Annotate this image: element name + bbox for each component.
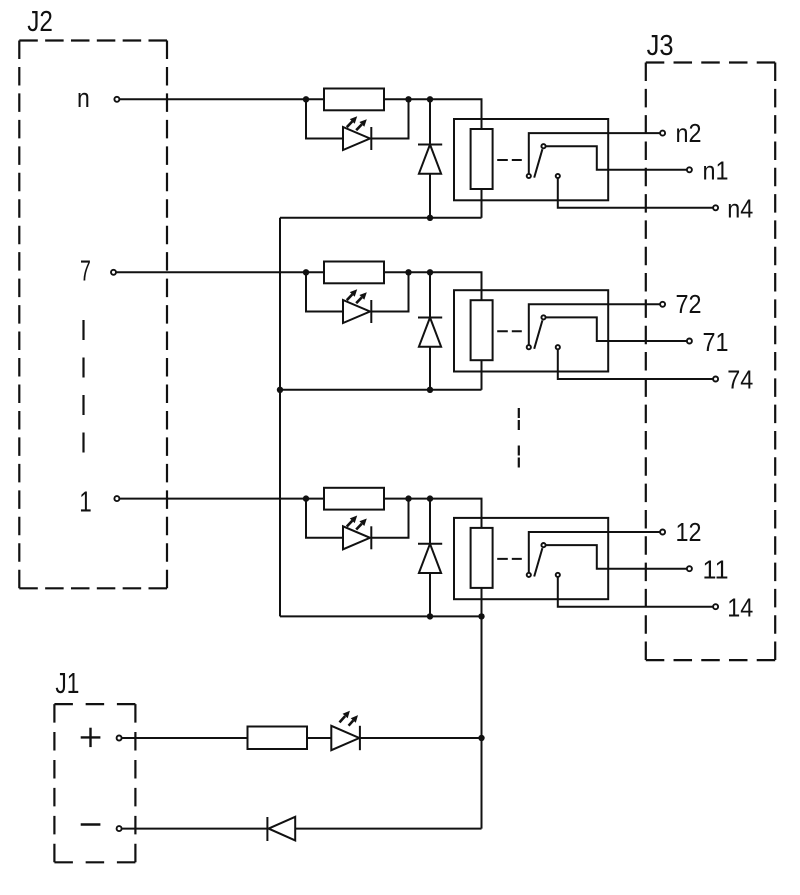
wire: channel bus ch1 [280,217,482,219]
wire: pole to n2 [529,133,663,176]
svg-text:J3: J3 [647,30,674,62]
J1 minus sign [81,823,101,825]
connector J2 [19,41,167,589]
svg-text:7: 7 [80,255,91,287]
LED arrows ch2 [347,294,353,300]
reverse protection diode D4 [266,817,268,841]
resistor R0 [248,727,308,750]
connector J3 [646,63,775,661]
wire: LED branch ch1 [306,99,343,138]
J2 pin 7 terminal [111,270,116,275]
wire: coil bottom to bus ch3 [481,588,483,617]
freewheeling diode D3b [429,499,431,544]
LED arrows D0 [340,716,346,722]
switch contacts ch3 [527,573,531,577]
terminal 71 [687,339,692,344]
svg-text:12: 12 [676,517,702,547]
wire: minus to diode [122,828,267,830]
J1 minus terminal [117,826,122,831]
LED arrows ch1 [347,121,353,127]
wire: pole to 12 [529,532,663,575]
wire: contact to 74 [558,347,716,379]
svg-text:J1: J1 [55,668,79,700]
switch arm ch1 [534,149,542,177]
svg-text:72: 72 [676,289,702,319]
terminal 74 [713,377,718,382]
wire: return line down to J1 [481,616,483,828]
node: diode tap ch3 [427,495,433,501]
J1 plus terminal [117,736,122,741]
terminal 12 [660,530,665,535]
wire: channel bus ch3 [280,615,482,617]
relay K1 box [454,119,608,200]
node: LED rejoin ch1 [405,96,411,102]
svg-text:n1: n1 [703,156,729,186]
freewheeling diode D1b [429,99,431,144]
J2 pin n terminal [114,97,119,102]
wire: LED branch ch3 [306,499,343,538]
svg-text:11: 11 [703,555,729,585]
J2 pins ellipsis dashed line [82,320,84,458]
LED arrows ch3 [347,521,353,527]
coil-contact link dashes ch1 [497,159,522,161]
relay K3 coil [471,528,493,588]
J1 plus sign [81,736,101,738]
switch arm ch2 [534,320,542,348]
freewheeling diode D2b [429,272,431,317]
node: diode to bus ch3 [427,613,433,619]
node: diode tap ch1 [427,96,433,102]
svg-text:n4: n4 [727,194,753,224]
node: return junction at channel-1 bus [478,613,484,619]
wire: contact to n4 [558,176,716,208]
connector J1 [54,704,135,862]
wire: LED branch ch2 [306,272,343,311]
wire: resistor to coil corner ch1 [384,99,482,129]
relay K2 coil [471,300,493,360]
terminal n4 [713,205,718,210]
terminal 14 [713,604,718,609]
svg-text:14: 14 [727,592,753,622]
node: plus joins return line [478,735,484,741]
coil-contact link dashes ch2 [497,330,522,332]
terminal 11 [687,566,692,571]
terminal n2 [660,131,665,136]
node: diode to bus ch1 [427,215,433,221]
wire: coil bottom to bus ch2 [481,360,483,390]
wire: coil bottom to bus ch1 [481,189,483,218]
svg-text:74: 74 [727,365,753,395]
node: LED rejoin ch3 [405,495,411,501]
wire: LED to return node [360,737,482,739]
wire: plus to resistor [122,737,247,739]
switch contacts ch2 [527,345,531,349]
wire: resistor to LED [307,737,331,739]
resistor R1 [324,89,384,111]
wire: contact to 11 [544,545,690,569]
wire: contact to n1 [544,146,690,170]
power LED D0 [331,726,359,750]
svg-text:1: 1 [79,487,92,519]
wire: resistor to coil corner ch2 [384,272,482,300]
terminal 72 [660,302,665,307]
node: LED branch split ch3 [303,495,309,501]
vertical ellipsis separator between channel 7 and 1 blocks [518,408,520,468]
node: rail to channel-7 bus [277,387,283,393]
relay K2 box [454,290,608,371]
terminal n1 [687,167,692,172]
wire: pole to 72 [529,304,663,347]
LED D1a [343,127,370,150]
node: LED rejoin ch2 [405,269,411,275]
svg-text:J2: J2 [27,6,53,38]
wire: pin 1 to resistor [119,498,324,500]
switch contacts ch1 [527,174,531,178]
svg-text:n2: n2 [676,118,702,148]
wire: pin n to resistor [119,98,324,100]
J2 pin 1 terminal [114,496,119,501]
wire: resistor to coil corner ch3 [384,499,482,528]
resistor R3 [324,488,384,510]
relay K3 box [454,518,608,599]
node: diode to bus ch2 [427,387,433,393]
LED D3a [343,526,370,549]
LED D2a [343,300,370,323]
svg-text:71: 71 [703,327,729,357]
wire: pin 7 to resistor [116,271,324,273]
coil-contact link dashes ch3 [497,558,522,560]
wire: contact to 71 [544,317,690,341]
relay K1 coil [471,129,493,189]
switch arm ch3 [534,548,542,576]
node: LED branch split ch1 [303,96,309,102]
node: LED branch split ch2 [303,269,309,275]
wire: diode to return line [295,828,481,830]
svg-text:n: n [77,83,90,113]
wire: left return rail [279,218,281,617]
node: diode tap ch2 [427,269,433,275]
wire: contact to 14 [558,575,716,607]
wire: channel bus ch2 [280,389,482,391]
resistor R2 [324,262,384,284]
